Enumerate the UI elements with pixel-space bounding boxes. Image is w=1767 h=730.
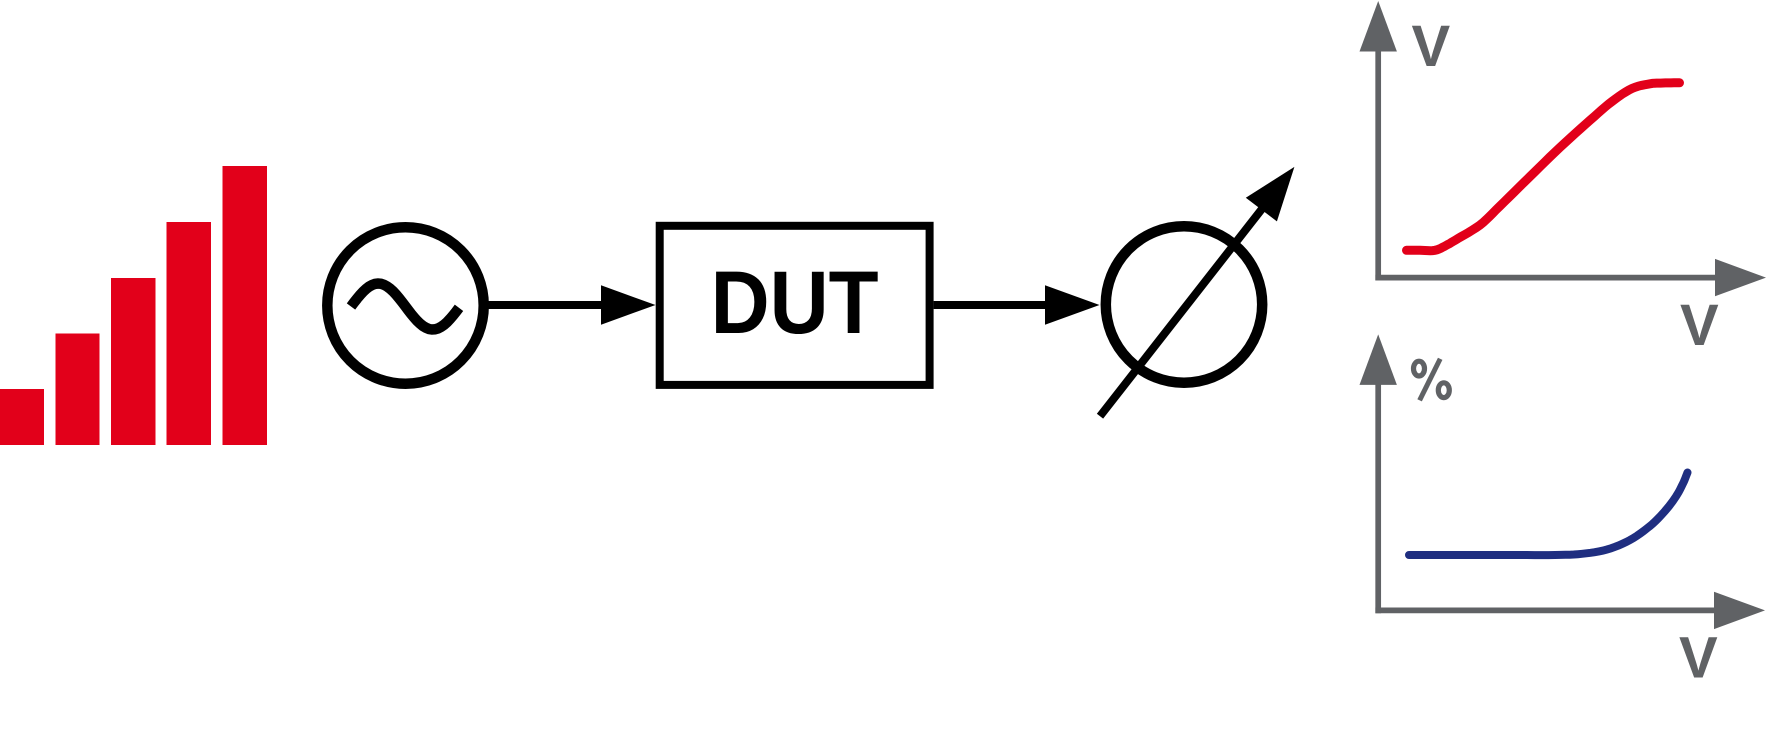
arrowhead W2 bbox=[1045, 285, 1100, 324]
top graph y-axis bbox=[1375, 46, 1381, 280]
logo bar 1 bbox=[0, 389, 44, 445]
output level curve (red) bbox=[1407, 83, 1680, 251]
top graph y-axis arrowhead bbox=[1360, 1, 1397, 52]
svg-text:V: V bbox=[1680, 293, 1719, 358]
bottom graph y label % bbox=[1414, 359, 1450, 401]
logo bar 5 bbox=[223, 166, 268, 445]
logo bar 4 bbox=[167, 222, 212, 445]
top graph x-axis bbox=[1375, 275, 1716, 281]
distortion curve (navy) bbox=[1409, 473, 1688, 556]
bottom graph x-axis bbox=[1375, 608, 1715, 614]
bottom graph y-axis arrowhead bbox=[1360, 334, 1397, 385]
meter M1 arrowhead bbox=[1246, 167, 1295, 222]
svg-text:V: V bbox=[1679, 625, 1718, 690]
svg-text:V: V bbox=[1412, 14, 1451, 79]
signal source G1 sine symbol bbox=[351, 284, 459, 330]
bottom graph y-axis bbox=[1375, 379, 1381, 613]
logo bar 3 bbox=[111, 278, 156, 445]
level meter M1 circle bbox=[1106, 226, 1262, 382]
top graph x-axis arrowhead bbox=[1715, 259, 1766, 296]
svg-text:DUT: DUT bbox=[711, 252, 879, 352]
bottom graph x-axis arrowhead bbox=[1714, 592, 1765, 629]
logo bar 2 bbox=[56, 334, 100, 446]
wire W1 from source to DUT bbox=[489, 301, 604, 309]
arrowhead W1 bbox=[601, 285, 656, 324]
meter M1 arrow shaft bbox=[1100, 205, 1265, 416]
wire W2 from DUT to meter bbox=[934, 301, 1047, 309]
signal source G1 circle bbox=[327, 227, 483, 383]
DUT box U1 bbox=[660, 226, 930, 385]
